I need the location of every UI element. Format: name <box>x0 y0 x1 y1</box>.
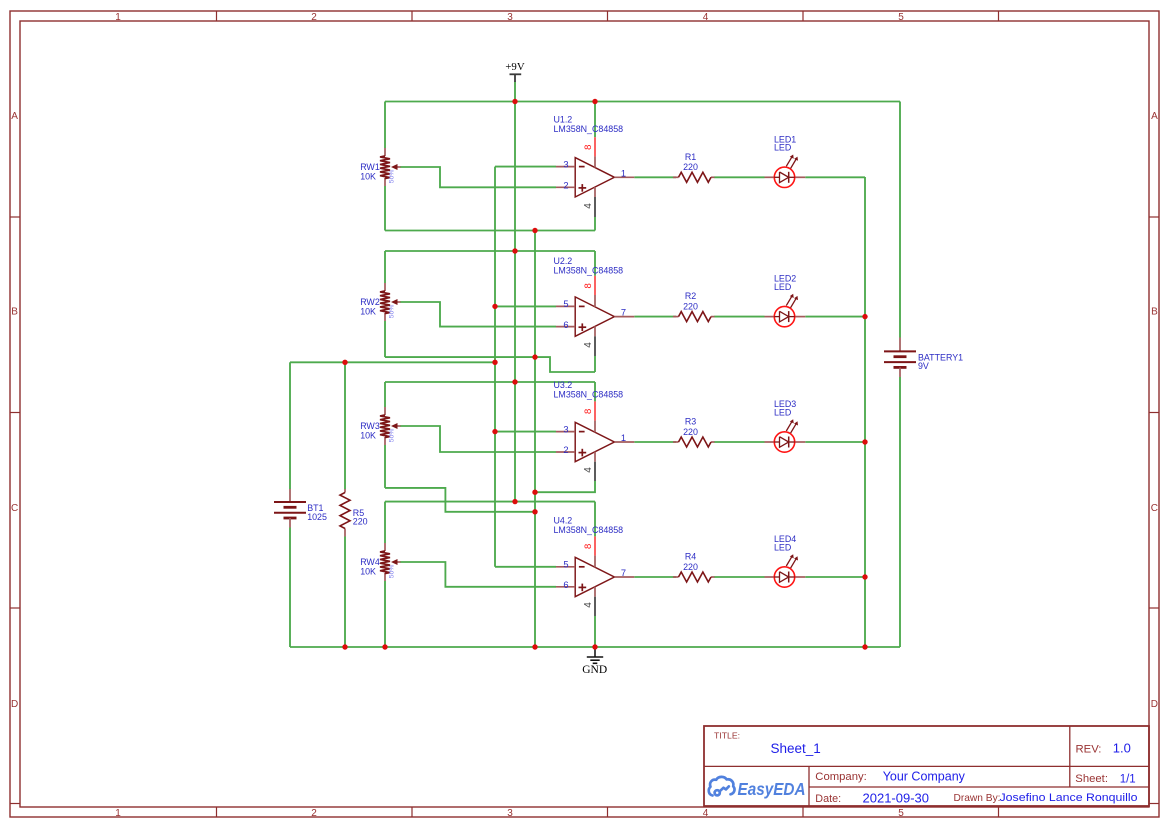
svg-text:50%: 50% <box>389 429 396 443</box>
svg-text:8: 8 <box>583 409 594 414</box>
svg-text:LM358N_C84858: LM358N_C84858 <box>554 390 624 400</box>
svg-text:1: 1 <box>621 433 626 443</box>
svg-text:LM358N_C84858: LM358N_C84858 <box>554 124 624 134</box>
svg-text:RW1: RW1 <box>360 162 380 172</box>
svg-text:A: A <box>11 111 18 122</box>
svg-text:Sheet:: Sheet: <box>1075 773 1108 785</box>
svg-text:4: 4 <box>583 203 594 209</box>
svg-text:50%: 50% <box>389 305 396 319</box>
svg-text:10K: 10K <box>360 431 376 441</box>
svg-text:4: 4 <box>583 467 594 473</box>
svg-text:220: 220 <box>683 162 698 172</box>
svg-text:2: 2 <box>311 808 317 819</box>
svg-text:R1: R1 <box>685 152 696 162</box>
svg-text:5: 5 <box>898 12 904 23</box>
svg-text:8: 8 <box>583 283 594 288</box>
svg-text:2: 2 <box>563 181 568 191</box>
svg-text:1/1: 1/1 <box>1120 773 1136 785</box>
svg-text:10K: 10K <box>360 172 376 182</box>
svg-text:220: 220 <box>683 427 698 437</box>
svg-text:LM358N_C84858: LM358N_C84858 <box>554 525 624 535</box>
svg-text:3: 3 <box>563 159 568 169</box>
svg-text:Josefino Lance Ronquillo: Josefino Lance Ronquillo <box>1000 792 1138 804</box>
svg-text:8: 8 <box>583 544 594 549</box>
svg-text:4: 4 <box>703 12 709 23</box>
svg-text:LED: LED <box>774 542 791 552</box>
svg-text:B: B <box>11 307 18 318</box>
svg-text:3: 3 <box>563 424 568 434</box>
svg-text:Drawn By:: Drawn By: <box>954 793 1001 804</box>
svg-text:LED: LED <box>774 143 791 153</box>
svg-text:1.0: 1.0 <box>1113 741 1131 756</box>
svg-text:50%: 50% <box>389 565 396 579</box>
svg-text:8: 8 <box>583 145 594 150</box>
svg-text:EasyEDA: EasyEDA <box>738 779 806 799</box>
svg-text:Your Company: Your Company <box>883 770 966 784</box>
svg-text:220: 220 <box>683 562 698 572</box>
svg-text:R3: R3 <box>685 417 696 427</box>
svg-text:C: C <box>11 503 18 514</box>
svg-text:6: 6 <box>563 580 568 590</box>
svg-text:Company:: Company: <box>815 771 867 783</box>
svg-text:U3.2: U3.2 <box>554 380 573 390</box>
svg-text:GND: GND <box>582 664 607 676</box>
svg-text:10K: 10K <box>360 567 376 577</box>
svg-text:A: A <box>1151 111 1158 122</box>
svg-text:U1.2: U1.2 <box>554 114 573 124</box>
svg-text:1: 1 <box>115 808 121 819</box>
svg-text:3: 3 <box>507 12 513 23</box>
svg-text:Date:: Date: <box>815 793 841 805</box>
svg-text:+9V: +9V <box>505 61 524 73</box>
svg-text:2021-09-30: 2021-09-30 <box>863 791 930 806</box>
svg-text:RW2: RW2 <box>360 297 380 307</box>
svg-text:7: 7 <box>621 308 626 318</box>
svg-text:RW4: RW4 <box>360 557 380 567</box>
svg-text:D: D <box>1151 699 1158 710</box>
svg-text:9V: 9V <box>918 361 929 371</box>
svg-text:5: 5 <box>898 808 904 819</box>
svg-text:B: B <box>1151 307 1158 318</box>
svg-text:220: 220 <box>683 302 698 312</box>
svg-text:220: 220 <box>353 517 368 527</box>
svg-text:D: D <box>11 699 18 710</box>
svg-text:LED: LED <box>774 407 791 417</box>
svg-text:4: 4 <box>583 602 594 608</box>
svg-text:50%: 50% <box>389 170 396 184</box>
svg-text:4: 4 <box>703 808 709 819</box>
svg-text:6: 6 <box>563 320 568 330</box>
svg-text:LED: LED <box>774 282 791 292</box>
svg-text:R2: R2 <box>685 291 696 301</box>
svg-text:5: 5 <box>563 560 568 570</box>
svg-text:U4.2: U4.2 <box>554 515 573 525</box>
svg-text:10K: 10K <box>360 307 376 317</box>
svg-text:RW3: RW3 <box>360 421 380 431</box>
svg-text:2: 2 <box>563 445 568 455</box>
svg-text:LM358N_C84858: LM358N_C84858 <box>554 266 624 276</box>
svg-text:4: 4 <box>583 342 594 348</box>
svg-text:7: 7 <box>621 568 626 578</box>
svg-text:TITLE:: TITLE: <box>714 730 740 740</box>
svg-text:C: C <box>1151 503 1158 514</box>
svg-text:REV:: REV: <box>1076 744 1102 756</box>
svg-text:2: 2 <box>311 12 317 23</box>
svg-text:U2.2: U2.2 <box>554 256 573 266</box>
svg-text:5: 5 <box>563 299 568 309</box>
svg-text:Sheet_1: Sheet_1 <box>771 741 821 756</box>
svg-text:1025: 1025 <box>307 512 327 522</box>
svg-text:1: 1 <box>115 12 121 23</box>
svg-text:3: 3 <box>507 808 513 819</box>
svg-text:R4: R4 <box>685 552 696 562</box>
svg-text:1: 1 <box>621 168 626 178</box>
